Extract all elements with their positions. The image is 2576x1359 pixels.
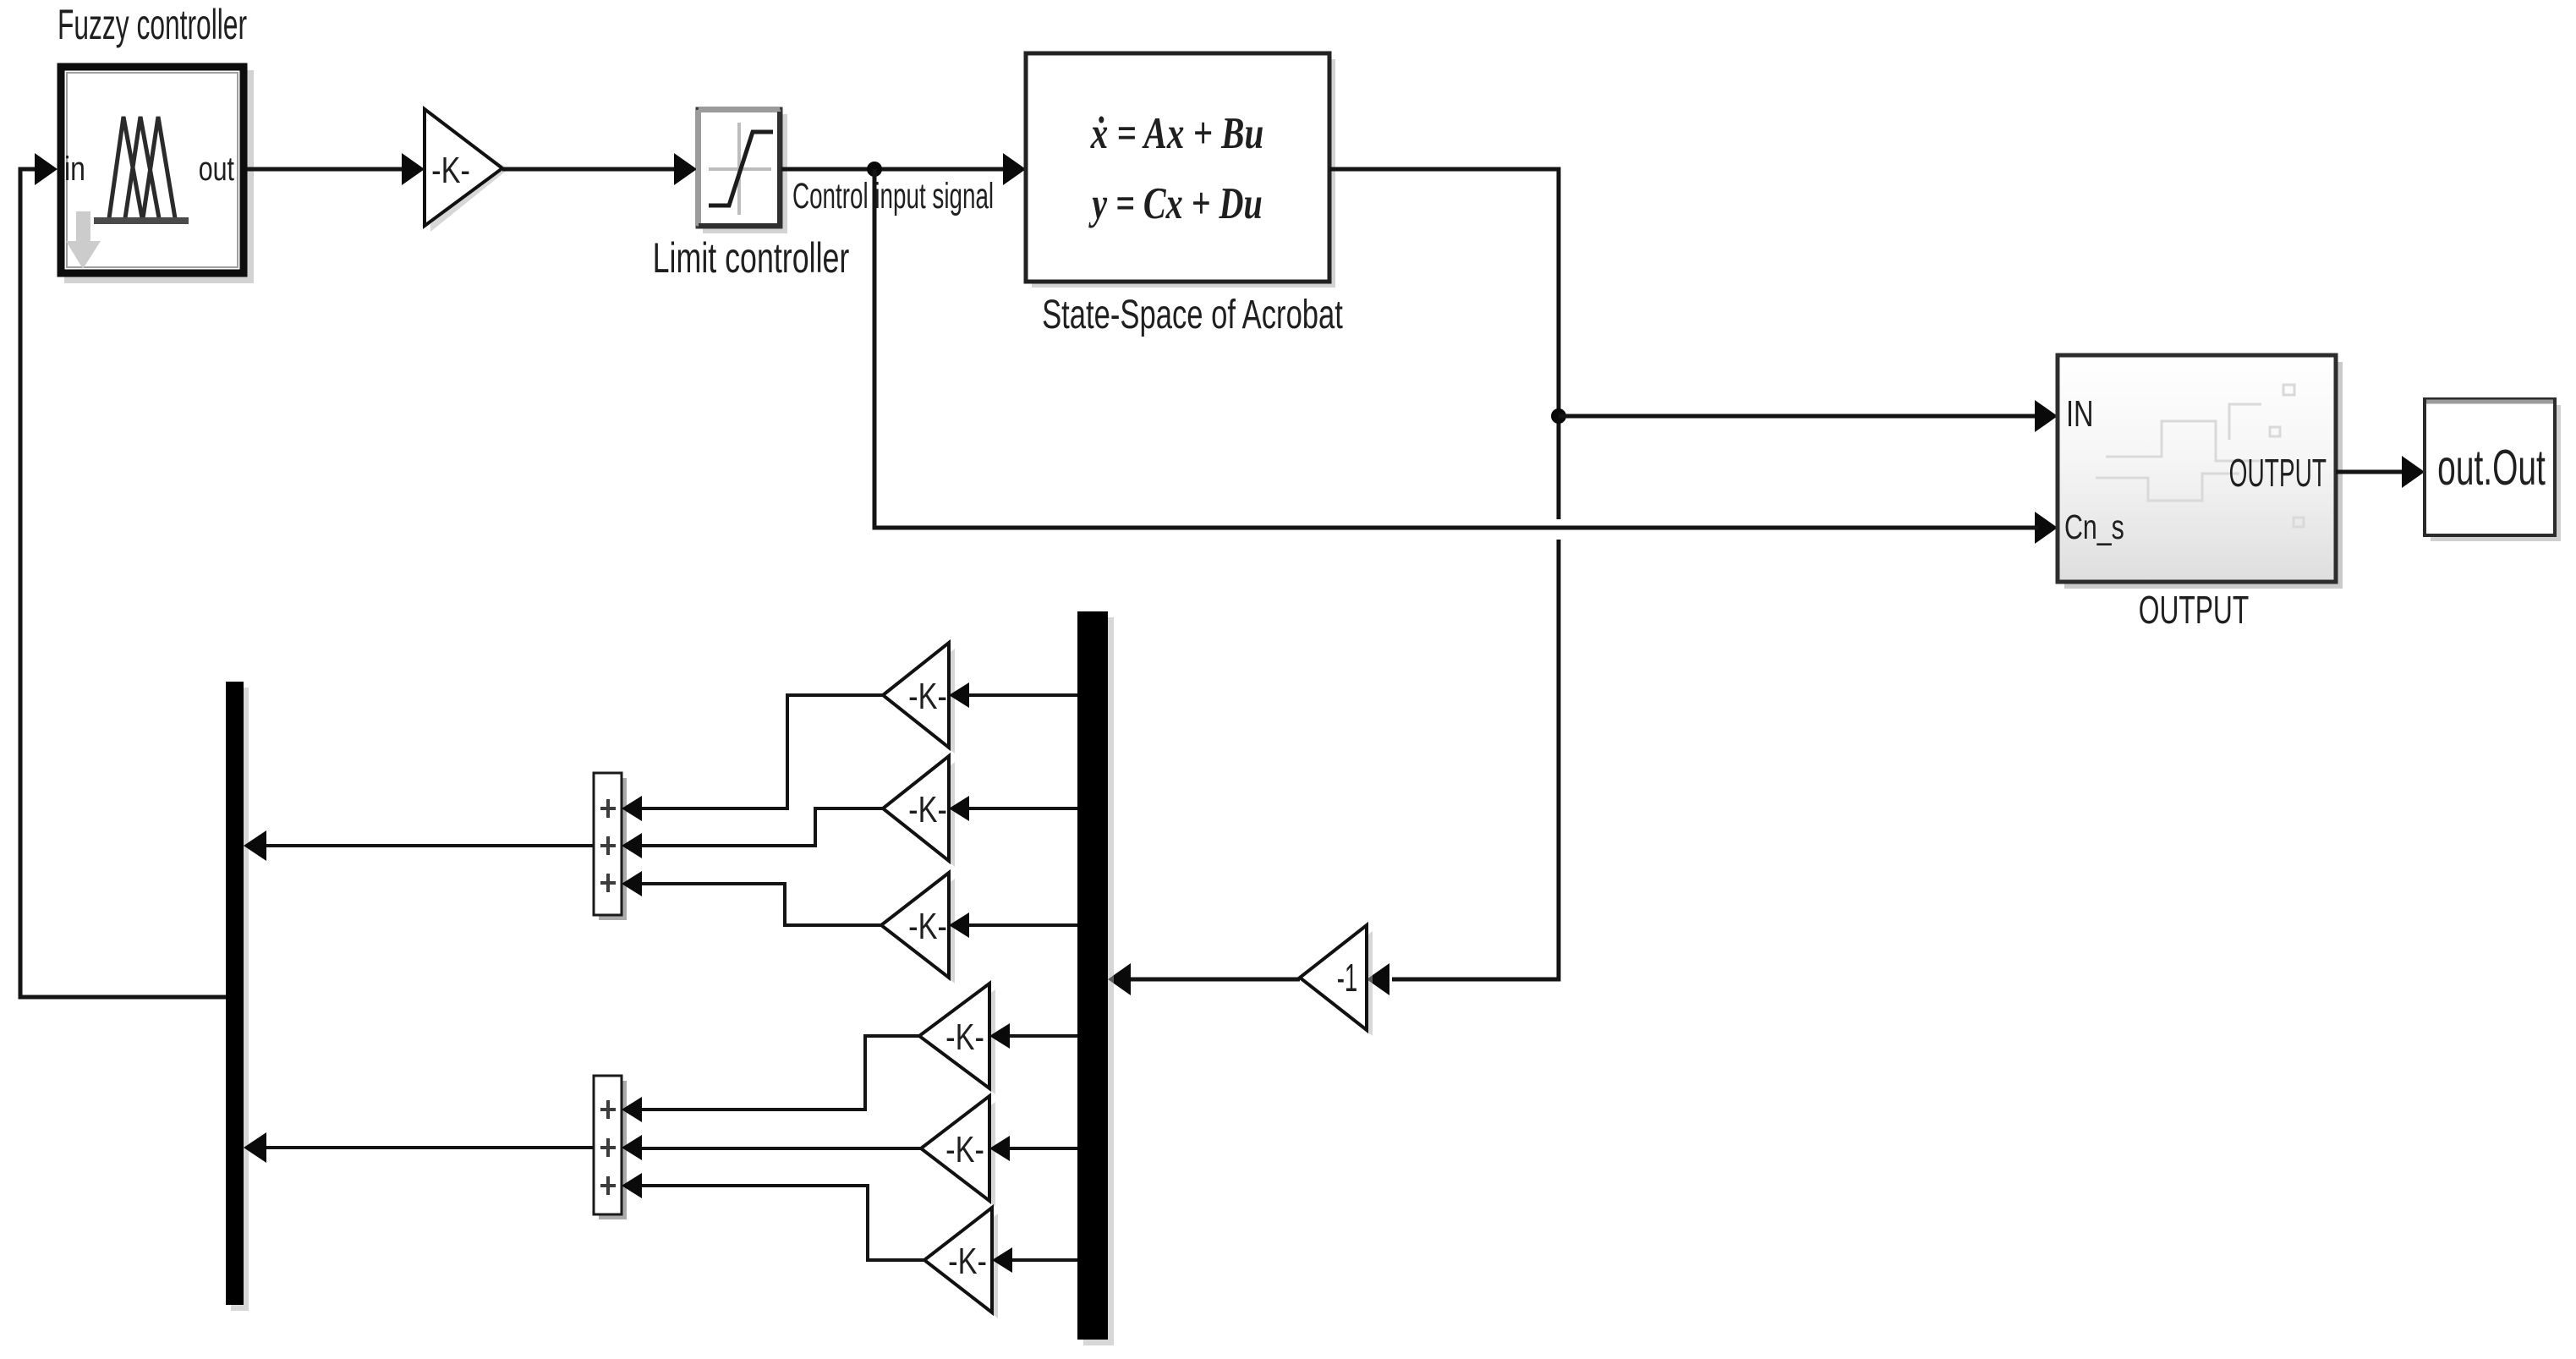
wire sum2 output to mux [244, 1132, 594, 1163]
svg-text:OUTPUT: OUTPUT [2139, 589, 2249, 632]
svg-text:-K-: -K- [945, 1017, 984, 1058]
gain K3 (top row 3) [881, 873, 955, 984]
gain K4 (bottom row 1) [919, 984, 995, 1094]
svg-text:y = Cx + Du: y = Cx + Du [1088, 179, 1263, 229]
svg-text:ẋ = Ax + Bu: ẋ = Ax + Bu [1090, 109, 1263, 158]
demux bar (right) [1077, 611, 1114, 1345]
gray down arrow inside fuzzy block [66, 211, 101, 269]
wire -1 out to demux bar [1108, 963, 1300, 995]
svg-text:Fuzzy controller: Fuzzy controller [58, 1, 247, 48]
gain K6 (bottom row 3) [924, 1208, 998, 1318]
sum block 2 [594, 1076, 627, 1219]
svg-text:OUTPUT: OUTPUT [2229, 452, 2327, 496]
wire sum1 output to mux [244, 830, 594, 861]
wire fuzzy out to gain [247, 153, 425, 185]
State-Space of Acrobat block [1026, 53, 1335, 288]
junction node state out [1551, 408, 1566, 424]
svg-text:Cn_s: Cn_s [2064, 507, 2124, 546]
wire gain K2 to sum1 in2 [622, 808, 883, 858]
Limit controller (saturation) block [697, 108, 787, 233]
junction node control signal [867, 162, 882, 177]
sum block 1 [594, 773, 627, 920]
svg-text:-1: -1 [1337, 957, 1358, 1000]
wire gain to limit controller [502, 153, 697, 185]
wire demux to gain K5 [989, 1136, 1077, 1161]
svg-text:-K-: -K- [431, 150, 470, 191]
Fuzzy controller block [61, 67, 254, 283]
out.Out block (To Workspace) [2425, 399, 2561, 541]
wire state-space out down to -1 gain with IN branch [1329, 169, 1559, 995]
wire demux to gain K6 [992, 1247, 1077, 1273]
gain -1 [1300, 925, 1373, 1036]
wire feedback loop from mux output to fuzzy input [20, 153, 226, 997]
svg-text:-K-: -K- [945, 1129, 984, 1170]
wire demux to gain K2 [949, 796, 1077, 821]
gain K5 (bottom row 2) [921, 1096, 995, 1207]
wire gain K4 to sum2 in1 [622, 1036, 919, 1122]
wire OUTPUT to out.Out [2336, 456, 2425, 488]
svg-text:-K-: -K- [908, 789, 947, 830]
wire demux to gain K4 [989, 1023, 1077, 1049]
wire gain K5 to sum2 in2 [622, 1135, 921, 1160]
wire gain K3 to sum1 in3 [622, 871, 881, 925]
wire demux to gain K1 [949, 682, 1077, 708]
svg-text:-K-: -K- [908, 906, 947, 947]
svg-text:Limit controller: Limit controller [653, 235, 850, 282]
wire junction to IN port [1559, 400, 2058, 432]
wire demux to gain K3 [949, 912, 1077, 938]
svg-text:IN: IN [2066, 393, 2094, 435]
svg-text:-K-: -K- [948, 1241, 987, 1282]
wire gain K1 to sum1 in1 [622, 695, 883, 821]
svg-text:Control input signal: Control input signal [792, 175, 994, 216]
svg-text:in: in [64, 150, 85, 188]
mux bar (left) [226, 682, 249, 1311]
svg-text:out.Out: out.Out [2437, 440, 2546, 496]
wire gain K6 to sum2 in3 [622, 1173, 924, 1260]
faint scope sketch inside OUTPUT [2096, 385, 2304, 527]
svg-text:out: out [199, 150, 234, 188]
wire junction down to Cn_s input [874, 169, 2058, 544]
gain K2 (top row 2) [883, 756, 955, 867]
gain -K- (main) [425, 109, 508, 232]
gain K1 (top row 1) [883, 643, 955, 753]
wire limit to state-space with junction [781, 153, 1026, 185]
svg-text:State-Space of Acrobat: State-Space of Acrobat [1042, 291, 1343, 337]
svg-text:-K-: -K- [908, 676, 947, 717]
membership function icon [94, 117, 189, 221]
OUTPUT subsystem block [2058, 355, 2343, 589]
